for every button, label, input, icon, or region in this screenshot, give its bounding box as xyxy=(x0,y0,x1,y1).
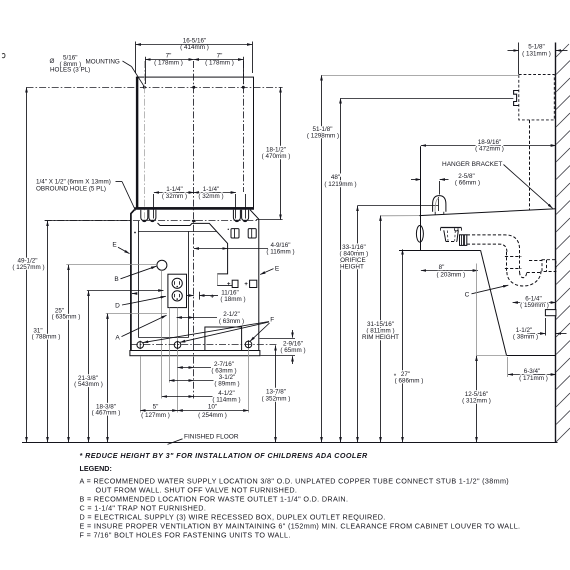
svg-text:( 1298mm ): ( 1298mm ) xyxy=(307,133,339,140)
electrical outlet D xyxy=(168,274,187,307)
ext line 25in to B xyxy=(66,264,157,266)
svg-text:( 66mm ): ( 66mm ) xyxy=(455,179,480,186)
svg-text:5": 5" xyxy=(153,404,159,411)
inner panel right vertical xyxy=(188,231,190,337)
knockout square 2 xyxy=(245,280,257,287)
wall hatching xyxy=(556,44,570,442)
svg-text:B: B xyxy=(114,276,118,283)
bolt hole 3 xyxy=(245,340,252,348)
left dim 21-3/8 xyxy=(74,291,163,443)
water stub A column xyxy=(169,308,171,383)
svg-text:A = RECOMMENDED WATER SUPPLY L: A = RECOMMENDED WATER SUPPLY LOCATION 3/… xyxy=(80,476,510,485)
dim 2-9/16 xyxy=(280,330,305,364)
scan speck xyxy=(2,54,5,58)
svg-text:E = INSURE PROPER VENTILATION: E = INSURE PROPER VENTILATION BY MAINTAI… xyxy=(80,521,521,530)
left dim 25 xyxy=(52,265,81,442)
basin strainer xyxy=(441,228,462,242)
svg-text:1-1/4": 1-1/4" xyxy=(166,186,183,193)
ext 51-1/8 xyxy=(322,75,519,77)
label E right xyxy=(260,265,280,274)
obround hole centerline xyxy=(45,220,259,222)
small arrow at cabinet edge xyxy=(132,293,136,295)
dim 3-1/2 xyxy=(169,374,239,388)
dim 5-1/8 xyxy=(508,43,568,75)
dim 10 xyxy=(178,404,249,419)
svg-text:( 686mm ): ( 686mm ) xyxy=(395,378,424,385)
dim 7 inch right xyxy=(146,53,244,84)
svg-text:7": 7" xyxy=(166,53,172,60)
label C xyxy=(465,285,509,298)
dim 8 xyxy=(421,264,478,278)
hanger hooks left xyxy=(141,210,156,222)
inner panel bottom xyxy=(138,337,189,339)
svg-text:( 1257mm ): ( 1257mm ) xyxy=(12,264,44,271)
bracket clip xyxy=(514,91,519,106)
svg-text:( 114mm ): ( 114mm ) xyxy=(212,397,240,404)
svg-text:OBROUND HOLE (5 PL): OBROUND HOLE (5 PL) xyxy=(36,186,106,193)
legend lines xyxy=(80,476,521,539)
cabinet base front view xyxy=(130,351,260,356)
label E left xyxy=(112,241,129,253)
svg-text:( 131mm ): ( 131mm ) xyxy=(522,50,551,57)
svg-text:( 203mm ): ( 203mm ) xyxy=(437,271,466,278)
cooler front face xyxy=(420,146,422,250)
dim 33-1/16 orifice height xyxy=(340,206,369,442)
inner panel left vertical xyxy=(138,221,140,337)
mounting hole dots xyxy=(143,86,245,89)
svg-text:MOUNTING: MOUNTING xyxy=(86,58,120,65)
dim 1-1/4 right xyxy=(154,186,246,219)
svg-text:HEIGHT: HEIGHT xyxy=(340,264,364,271)
svg-text:D = ELECTRICAL SUPPLY (3) WIRE: D = ELECTRICAL SUPPLY (3) WIRE RECESSED … xyxy=(80,512,386,521)
rim ext gray xyxy=(380,215,419,217)
dim 12-5/16 xyxy=(462,356,491,443)
svg-text:LEGEND:: LEGEND: xyxy=(80,464,112,473)
bolt hole 1 xyxy=(137,341,144,349)
drain coupling xyxy=(460,235,467,246)
svg-text:* REDUCE HEIGHT BY 3" FOR INST: * REDUCE HEIGHT BY 3" FOR INSTALLATION O… xyxy=(80,451,368,460)
mounting hole centerline xyxy=(27,87,254,89)
inner horizontal shelf line xyxy=(138,231,216,233)
svg-text:RIM HEIGHT: RIM HEIGHT xyxy=(362,334,399,341)
hanger bracket label xyxy=(442,161,553,209)
dim 11/16 xyxy=(187,289,246,303)
ext 48 xyxy=(341,98,514,100)
dim 4-9/16 xyxy=(194,242,295,256)
svg-text:( 63mm ): ( 63mm ) xyxy=(219,318,244,325)
ext lines 2-9/16 xyxy=(259,339,295,356)
svg-text:( 159mm ): ( 159mm ) xyxy=(520,302,549,309)
svg-text:E: E xyxy=(112,241,117,248)
svg-text:A: A xyxy=(115,334,120,341)
svg-text:B = RECOMMENDED LOCATION FOR W: B = RECOMMENDED LOCATION FOR WASTE OUTLE… xyxy=(80,494,349,503)
mounting plate outline xyxy=(136,77,253,208)
waste outlet circle B xyxy=(157,260,167,270)
svg-text:HANGER BRACKET: HANGER BRACKET xyxy=(442,161,502,168)
dim 13-7/8 xyxy=(262,345,291,442)
svg-text:( 1219mm ): ( 1219mm ) xyxy=(324,181,356,188)
svg-text:C: C xyxy=(465,292,470,299)
recess outline xyxy=(158,223,228,274)
bracket hidden line xyxy=(529,120,531,210)
dim 5 xyxy=(140,404,177,419)
conduit line to knockout xyxy=(217,285,232,287)
plate hole column centerlines xyxy=(145,61,244,344)
dim 2-7/16 xyxy=(178,361,237,375)
svg-text:Ø: Ø xyxy=(50,58,55,65)
dim 31-15/16 rim height xyxy=(362,216,399,443)
svg-text:( 788mm ): ( 788mm ) xyxy=(32,333,61,340)
svg-text:( 472mm ): ( 472mm ) xyxy=(475,146,504,153)
hanger bracket dashed box xyxy=(519,75,555,120)
svg-text:( 116mm ): ( 116mm ) xyxy=(266,248,294,255)
dim 6-3/4 xyxy=(508,357,556,382)
svg-text:( 254mm ): ( 254mm ) xyxy=(198,412,227,419)
louver slant xyxy=(481,250,507,355)
dim 6-1/4 xyxy=(513,296,556,310)
label B xyxy=(114,266,156,283)
label F with leaders xyxy=(143,317,274,343)
svg-text:( 171mm ): ( 171mm ) xyxy=(519,375,548,382)
obround hole label xyxy=(36,179,136,211)
svg-text:( 32mm ): ( 32mm ) xyxy=(162,193,187,200)
small dot xyxy=(134,232,136,234)
D column / middle bolt column xyxy=(177,308,179,413)
recess drop gray xyxy=(217,274,219,285)
svg-text:7": 7" xyxy=(217,53,223,60)
svg-text:1-1/4": 1-1/4" xyxy=(203,186,220,193)
bolt hole 2 xyxy=(174,341,181,349)
dim 18-9/16 xyxy=(421,139,556,153)
dim 4-1/2 xyxy=(162,390,241,404)
bubbler xyxy=(433,196,446,215)
svg-text:( 18mm ): ( 18mm ) xyxy=(220,296,245,303)
svg-text:FINISHED FLOOR: FINISHED FLOOR xyxy=(184,434,239,441)
dim 7 inch left xyxy=(145,53,193,67)
cabinet bottom back xyxy=(507,355,556,357)
left dim 49-1/2 xyxy=(12,87,44,442)
svg-text:( 65mm ): ( 65mm ) xyxy=(280,347,305,354)
orifice ext xyxy=(357,205,438,207)
svg-text:( 178mm ): ( 178mm ) xyxy=(154,60,183,67)
pushbutton xyxy=(416,226,423,243)
svg-text:( 470mm ): ( 470mm ) xyxy=(262,153,291,160)
bolt columns below base xyxy=(141,344,249,413)
dim 2-1/2 xyxy=(177,311,245,325)
svg-text:( 38mm ): ( 38mm ) xyxy=(513,334,538,341)
left dim 31 xyxy=(32,221,131,443)
louver rectangle xyxy=(205,327,242,351)
cooler top slant xyxy=(419,209,556,216)
top of cabinet thick line xyxy=(134,207,254,209)
finished floor line xyxy=(22,442,558,444)
dim 1-1/4 left xyxy=(154,186,194,200)
svg-text:( 178mm ): ( 178mm ) xyxy=(205,60,234,67)
knockout square 1 xyxy=(227,280,238,287)
svg-text:F = 7/16" BOLT HOLES FOR FASTE: F = 7/16" BOLT HOLES FOR FASTENING UNITS… xyxy=(80,530,291,539)
waste pipe dashed xyxy=(467,235,522,272)
dim 2-5/8 xyxy=(411,173,480,195)
center obround dot xyxy=(192,220,196,222)
svg-text:D: D xyxy=(115,303,120,310)
dim 27 xyxy=(394,249,424,442)
left dim 18-3/8 xyxy=(92,314,167,443)
label A xyxy=(115,315,166,341)
bolt hole centerline xyxy=(131,344,278,346)
trap ext gray xyxy=(476,264,478,356)
svg-text:( 352mm ): ( 352mm ) xyxy=(262,395,291,402)
svg-text:C = 1-1/4" TRAP NOT FURNISHED.: C = 1-1/4" TRAP NOT FURNISHED. xyxy=(80,503,207,512)
wall line xyxy=(555,43,557,443)
svg-text:( 543mm ): ( 543mm ) xyxy=(74,381,103,388)
dim 48 xyxy=(324,98,356,442)
svg-text:1/4" X 1/2" (6mm X 13mm): 1/4" X 1/2" (6mm X 13mm) xyxy=(36,179,111,186)
dim 51-1/8 xyxy=(307,75,339,442)
mounting holes label xyxy=(50,55,145,87)
svg-text:( 32mm ): ( 32mm ) xyxy=(198,193,223,200)
cabinet outline front view xyxy=(131,210,259,351)
svg-text:( 414mm ): ( 414mm ) xyxy=(180,44,209,51)
cooler bottom front xyxy=(399,250,481,252)
dim 1-1/2 xyxy=(513,318,567,341)
svg-text:( 312mm ): ( 312mm ) xyxy=(462,398,491,405)
svg-text:OUT FROM WALL. SHUT OFF VALVE: OUT FROM WALL. SHUT OFF VALVE NOT FURNIS… xyxy=(96,485,298,494)
svg-text:8": 8" xyxy=(439,264,445,271)
svg-text:E: E xyxy=(275,265,280,272)
svg-text:( 467mm ): ( 467mm ) xyxy=(92,409,121,416)
svg-text:( 127mm ): ( 127mm ) xyxy=(141,412,170,419)
trap dashed xyxy=(507,260,556,286)
svg-text:10": 10" xyxy=(208,404,217,411)
B column xyxy=(161,270,163,398)
svg-text:HOLES (3 PL): HOLES (3 PL) xyxy=(50,67,90,74)
dim 18-1/2 plate height xyxy=(254,87,291,219)
label D xyxy=(115,296,166,309)
bracket slot glyph left xyxy=(228,229,239,238)
svg-text:F: F xyxy=(270,317,274,324)
hanger hooks right xyxy=(233,210,248,222)
ext 12-5/16 gray xyxy=(476,355,506,357)
water supply stub xyxy=(545,310,556,316)
dim 16-5/16 overall width xyxy=(136,37,253,73)
bracket slot glyph right xyxy=(248,229,256,238)
finished floor label xyxy=(168,434,239,445)
svg-text:( 89mm ): ( 89mm ) xyxy=(214,381,239,388)
svg-text:( 635mm ): ( 635mm ) xyxy=(52,313,81,320)
